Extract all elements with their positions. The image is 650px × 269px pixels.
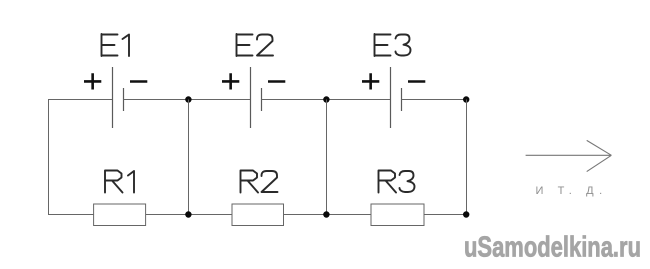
label E2: [237, 34, 274, 56]
wire: bottom rail: [48, 214, 467, 216]
battery cell E3: [391, 67, 402, 128]
minus sign of E1: [130, 80, 147, 83]
battery cell E1: [113, 67, 124, 128]
wire: vertical between rails at junction 2: [326, 100, 328, 215]
minus sign of E3: [408, 80, 425, 83]
battery cell E2: [251, 67, 262, 128]
minus sign of E2: [268, 80, 285, 83]
wire: top rail segment right of E3: [402, 99, 467, 101]
label R3: [379, 171, 415, 193]
label E1: [102, 34, 130, 56]
wire: vertical between rails at junction 1: [188, 100, 190, 215]
svg-text:uSamodelkina.ru: uSamodelkina.ru: [464, 232, 641, 264]
node dot: top rail right end: [463, 96, 469, 102]
resistor R2: [232, 204, 284, 226]
label R1: [105, 171, 134, 193]
node dot: top rail junction 2: [323, 96, 329, 102]
arrow: continuation to the right: [526, 140, 612, 171]
label R2: [241, 171, 278, 193]
label: и т. д.: [536, 185, 608, 197]
node dot: bottom rail junction 2: [323, 211, 329, 217]
node dot: bottom rail right end: [463, 211, 469, 217]
plus sign of E3: [362, 73, 379, 89]
label E3: [375, 34, 411, 56]
wire: vertical between rails at right end: [466, 100, 468, 215]
resistor R1: [94, 204, 146, 226]
wire: top rail segment E1 to E2: [124, 99, 251, 101]
wire: left vertical rail: [48, 100, 50, 215]
watermark uSamodelkina.ru: [464, 232, 641, 264]
node dot: bottom rail junction 1: [185, 211, 191, 217]
resistor R3: [371, 204, 424, 226]
node dot: top rail junction 1: [185, 96, 191, 102]
wire: top rail segment E2 to E3: [262, 99, 391, 101]
plus sign of E1: [84, 73, 101, 89]
wire: top rail segment left of E1: [48, 99, 113, 101]
plus sign of E2: [222, 73, 239, 89]
svg-text:И Т. Д.: И Т. Д.: [536, 185, 608, 197]
